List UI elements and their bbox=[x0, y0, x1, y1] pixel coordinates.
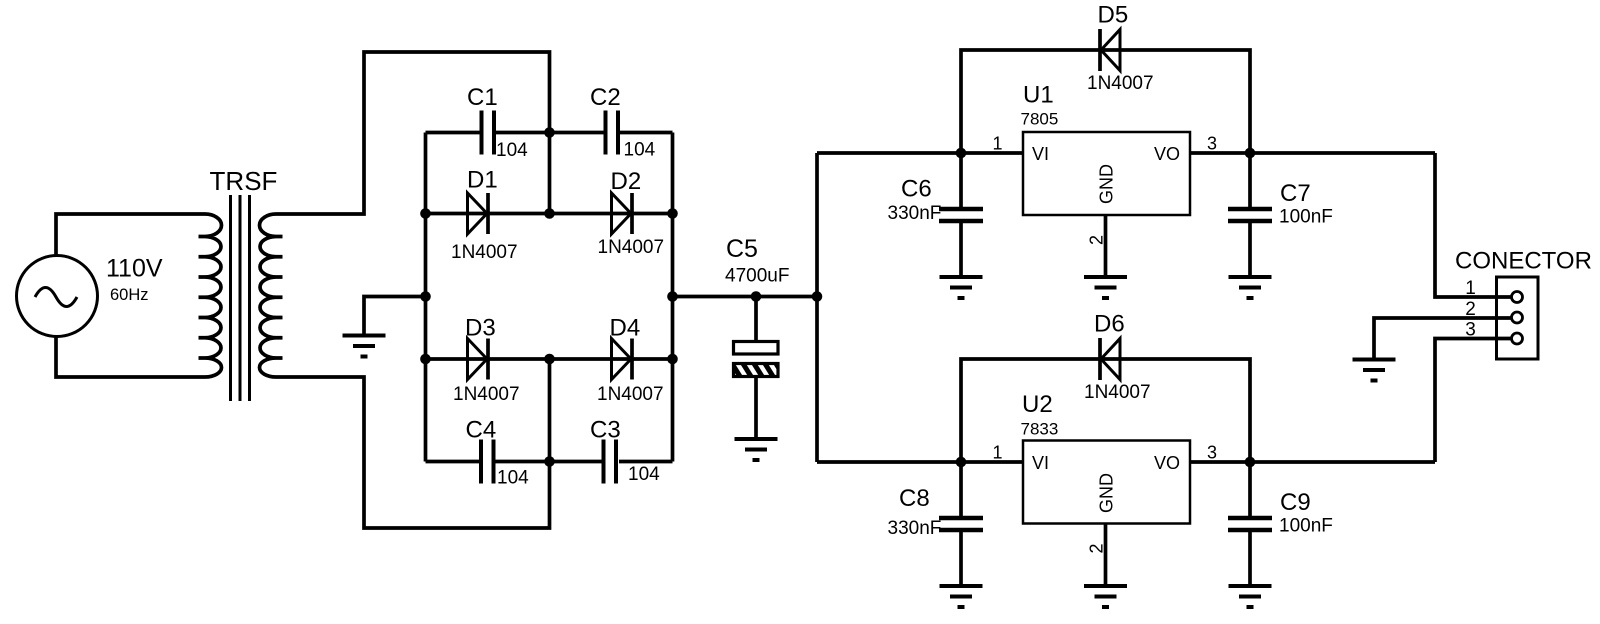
svg-text:104: 104 bbox=[497, 468, 529, 489]
capacitor C6 330nF bbox=[959, 153, 963, 207]
U2 GND pin wire + ground bbox=[1104, 524, 1108, 587]
svg-text:U1: U1 bbox=[1023, 82, 1054, 109]
diode D5 1N4007 bbox=[1100, 29, 1120, 71]
svg-text:GND: GND bbox=[1097, 473, 1117, 513]
node D2 cathode bbox=[667, 208, 678, 219]
diode D1 1N4007 bbox=[426, 212, 550, 216]
wire D6 loop bbox=[961, 359, 1250, 462]
diode D4 1N4007 bbox=[550, 357, 673, 361]
transformer secondary winding + wires to bridge bbox=[260, 52, 550, 528]
connector J1 CONECTOR bbox=[1497, 277, 1539, 359]
capacitor C2 104 bbox=[550, 131, 606, 135]
capacitor C9 100nF bbox=[1248, 462, 1252, 516]
diode D3 1N4007 bbox=[426, 357, 550, 361]
wire U1 input bbox=[817, 151, 1023, 155]
svg-text:7833: 7833 bbox=[1021, 420, 1059, 439]
svg-text:C2: C2 bbox=[590, 84, 621, 111]
wire connector pin 2 + ground bbox=[1374, 318, 1511, 360]
wire connector pin 1 bbox=[1435, 153, 1511, 297]
svg-text:330nF: 330nF bbox=[888, 203, 942, 224]
svg-text:C1: C1 bbox=[467, 84, 498, 111]
svg-text:D6: D6 bbox=[1094, 311, 1125, 338]
svg-text:330nF: 330nF bbox=[888, 518, 942, 539]
transformer TRSF core bbox=[231, 195, 250, 401]
svg-text:1: 1 bbox=[992, 443, 1002, 463]
bridge left column wire bbox=[424, 133, 428, 462]
node C1/C2 center bbox=[544, 127, 555, 138]
capacitor C1 104 bbox=[426, 131, 482, 135]
svg-text:1N4007: 1N4007 bbox=[451, 242, 518, 263]
regulator U1 7805 bbox=[1023, 132, 1190, 215]
node C5 top bbox=[751, 291, 762, 302]
svg-text:4700uF: 4700uF bbox=[725, 266, 789, 287]
svg-text:3: 3 bbox=[1465, 320, 1476, 341]
svg-text:D3: D3 bbox=[465, 315, 496, 342]
svg-text:VI: VI bbox=[1032, 144, 1049, 164]
svg-text:100nF: 100nF bbox=[1279, 207, 1333, 228]
U1 GND pin wire + ground bbox=[1104, 215, 1108, 277]
svg-text:VI: VI bbox=[1032, 453, 1049, 473]
node U1 input bbox=[956, 148, 967, 159]
node U1 output bbox=[1245, 148, 1256, 159]
node branch split bbox=[812, 291, 823, 302]
wire branch vertical to U1/U2 bbox=[815, 153, 819, 462]
svg-text:60Hz: 60Hz bbox=[110, 286, 149, 304]
ground C5 bbox=[735, 439, 778, 460]
svg-text:C4: C4 bbox=[466, 417, 497, 444]
svg-text:110V: 110V bbox=[106, 255, 163, 283]
svg-text:D2: D2 bbox=[611, 168, 642, 195]
svg-text:3: 3 bbox=[1207, 443, 1217, 463]
capacitor C3 104 bbox=[550, 460, 603, 464]
diode D2 1N4007 bbox=[550, 212, 673, 216]
diode D6 1N4007 bbox=[1100, 338, 1120, 380]
svg-text:104: 104 bbox=[624, 140, 656, 161]
svg-text:U2: U2 bbox=[1022, 391, 1053, 418]
svg-text:GND: GND bbox=[1097, 164, 1117, 204]
node U2 output bbox=[1245, 457, 1256, 468]
regulator U2 7833 bbox=[1023, 441, 1190, 524]
capacitor C8 330nF bbox=[959, 462, 963, 516]
svg-text:1N4007: 1N4007 bbox=[597, 384, 664, 405]
svg-text:VO: VO bbox=[1154, 144, 1180, 164]
svg-text:1N4007: 1N4007 bbox=[453, 384, 520, 405]
svg-text:C5: C5 bbox=[726, 235, 758, 263]
wire + transformer primary winding bbox=[56, 214, 222, 377]
capacitor C7 100nF bbox=[1248, 153, 1252, 207]
bridge right column wire bbox=[671, 133, 675, 462]
svg-text:2: 2 bbox=[1086, 235, 1106, 245]
svg-text:C8: C8 bbox=[899, 485, 930, 512]
ground C6 bbox=[940, 277, 983, 298]
svg-text:104: 104 bbox=[628, 464, 660, 485]
wire bridge output to C5 node bbox=[673, 295, 818, 299]
node D1 anode bbox=[420, 208, 431, 219]
ground (secondary center tap) bbox=[364, 297, 426, 336]
capacitor C5 4700uF electrolytic bbox=[754, 297, 758, 343]
svg-text:TRSF: TRSF bbox=[210, 166, 278, 196]
svg-text:2: 2 bbox=[1086, 543, 1106, 553]
ground C7 bbox=[1229, 277, 1272, 298]
svg-text:2: 2 bbox=[1465, 299, 1476, 320]
svg-text:CONECTOR: CONECTOR bbox=[1455, 248, 1592, 275]
ground C9 bbox=[1229, 586, 1272, 607]
svg-text:1: 1 bbox=[1465, 278, 1476, 299]
svg-text:1N4007: 1N4007 bbox=[598, 237, 665, 258]
svg-text:100nF: 100nF bbox=[1279, 516, 1333, 537]
svg-text:C7: C7 bbox=[1280, 180, 1311, 207]
ground C8 bbox=[940, 586, 983, 607]
AC source V1 110V 60Hz bbox=[17, 256, 98, 337]
svg-text:D5: D5 bbox=[1098, 2, 1129, 29]
node D3 anode bbox=[420, 354, 431, 365]
svg-text:3: 3 bbox=[1207, 134, 1217, 154]
svg-text:D4: D4 bbox=[610, 315, 641, 342]
svg-text:C6: C6 bbox=[901, 176, 932, 203]
node U2 input bbox=[956, 457, 967, 468]
node D3/D4 center bbox=[544, 354, 555, 365]
svg-text:C3: C3 bbox=[590, 417, 621, 444]
node D1/D2 center bbox=[544, 208, 555, 219]
wire U2 output bbox=[1190, 460, 1435, 464]
capacitor C4 104 bbox=[426, 460, 481, 464]
node secondary tap left bbox=[420, 291, 431, 302]
svg-text:VO: VO bbox=[1154, 453, 1180, 473]
wire D5 loop bbox=[961, 50, 1250, 153]
svg-text:7805: 7805 bbox=[1021, 110, 1059, 129]
svg-text:1N4007: 1N4007 bbox=[1084, 382, 1151, 403]
svg-text:C9: C9 bbox=[1280, 489, 1311, 516]
svg-text:1: 1 bbox=[992, 134, 1002, 154]
svg-text:1N4007: 1N4007 bbox=[1087, 73, 1154, 94]
wire U1 output bbox=[1190, 151, 1435, 155]
node bridge output bbox=[667, 291, 678, 302]
svg-text:104: 104 bbox=[496, 140, 528, 161]
node D4 cathode bbox=[667, 354, 678, 365]
wire connector pin 3 bbox=[1435, 339, 1511, 463]
wire U2 input bbox=[817, 460, 1023, 464]
node C4/C3 center bbox=[544, 456, 555, 467]
svg-text:D1: D1 bbox=[467, 167, 498, 194]
